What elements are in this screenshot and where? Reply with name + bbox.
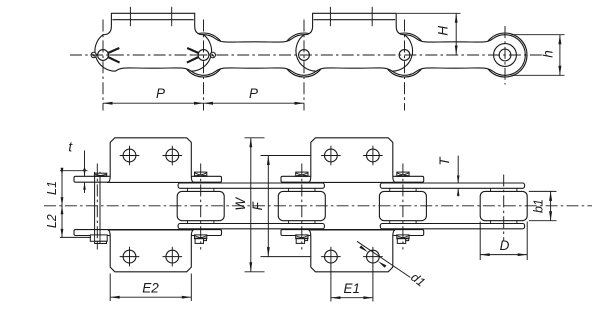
plan view: washer and cotter pin1 near side: [90, 235, 107, 241]
plan view: cotter pin head at pin 3 far side: [296, 172, 308, 176]
side view: attachment A1 hole center ticks: [129, 7, 131, 26]
dimension t (attachment thickness): [60, 170, 88, 172]
plan view: cotter pin head at pin 4 far side: [397, 172, 409, 176]
side view: attachment A2 hole center ticks: [329, 7, 331, 26]
side view: pin vertical centerlines: [102, 20, 104, 111]
plan view: hole: [325, 250, 338, 263]
svg-text:W: W: [233, 197, 248, 211]
side view: attachment A2 underside edge: [314, 19, 396, 21]
svg-text:L2: L2: [45, 214, 59, 228]
plan view: hole (d1 reference): [367, 250, 380, 263]
plan view: hole: [166, 250, 179, 263]
side view: inner link plate (pins 4-5): [384, 35, 525, 76]
svg-text:P: P: [156, 86, 165, 101]
plan view: cotter head pin1 far side: [94, 173, 106, 176]
plan view: outer link plates (edge view rails): [74, 176, 424, 235]
svg-text:E1: E1: [343, 281, 360, 296]
side view: rollers (large, protruding beyond plates): [182, 33, 528, 77]
plan view: rollers at pins 2-5: [177, 191, 527, 220]
dimension D (roller diameter): [479, 222, 481, 261]
side view: cotter pin at pin 1: [91, 52, 96, 57]
svg-text:H: H: [435, 26, 450, 36]
dimension W (overall attachment width): [245, 137, 265, 139]
plan view: attachment tab plate (link1 far side): [108, 138, 193, 183]
side view: outer link plate with attachment A2 (pins 3-4): [296, 13, 413, 71]
dimension L1: [61, 171, 63, 238]
dimension H (attachment height): [397, 12, 461, 14]
plan view: hole: [166, 149, 179, 162]
svg-text:F: F: [250, 201, 265, 210]
side view: outer link plate with attachment A1 (pins 1-2): [95, 13, 212, 71]
plan view: bushing end ticks: [188, 188, 517, 223]
dimension F (attachment hole row spacing): [261, 155, 311, 157]
side view: pin 5: [499, 49, 511, 61]
plan view: attachment tab plate (link1 near side): [108, 230, 193, 272]
plan view: cotter pin at pin 3 near side: [296, 235, 308, 239]
plan view: pin vertical centerlines: [96, 164, 98, 250]
plan view: horizontal centerline: [44, 205, 592, 207]
plan view: hole: [123, 149, 136, 162]
svg-text:D: D: [500, 238, 510, 253]
plan view: attachment tab plate (link3 far side): [309, 138, 395, 183]
dimension L2: [60, 236, 91, 238]
plan view: attachment tab plate (link3 near side): [309, 230, 395, 272]
side view: inner link plate (pins 2-3): [183, 35, 324, 76]
svg-text:L1: L1: [45, 181, 59, 195]
svg-text:P: P: [249, 86, 258, 101]
plan view: pin 1 (protruding end pin): [94, 172, 96, 235]
plan view: cotter pin at pin 4 near side: [397, 235, 409, 239]
plan view: cotter pin at pin 2 near side: [195, 235, 207, 239]
dimension E1: [330, 266, 332, 302]
svg-text:E2: E2: [142, 281, 159, 296]
plan view: hole: [123, 250, 136, 263]
dimension E2: [109, 274, 111, 302]
svg-text:h: h: [540, 50, 555, 58]
dimension T (plate thickness): [457, 156, 459, 183]
side view: cotter pin at pin 2: [210, 52, 215, 57]
dimension P (first pitch): [103, 102, 204, 104]
side view: roller 5 bushing: [494, 44, 517, 67]
plan view: hole: [367, 149, 380, 162]
svg-text:b1: b1: [532, 199, 546, 213]
dimension P (second pitch): [204, 102, 305, 104]
plan view: hole: [325, 149, 338, 162]
side view: attachment A1 underside edge: [112, 19, 193, 21]
side view: horizontal centerline: [70, 54, 543, 56]
plan view: inner link plates (edge view rails): [178, 183, 524, 229]
side view: pins 1-4: [98, 50, 410, 61]
plan view: cotter pin head at pin 2 far side: [195, 172, 207, 176]
dimension h (plate height): [512, 34, 565, 36]
dimension b1 (inner width): [529, 190, 557, 192]
leader and dimension d1 (attachment hole diameter): [357, 241, 410, 277]
